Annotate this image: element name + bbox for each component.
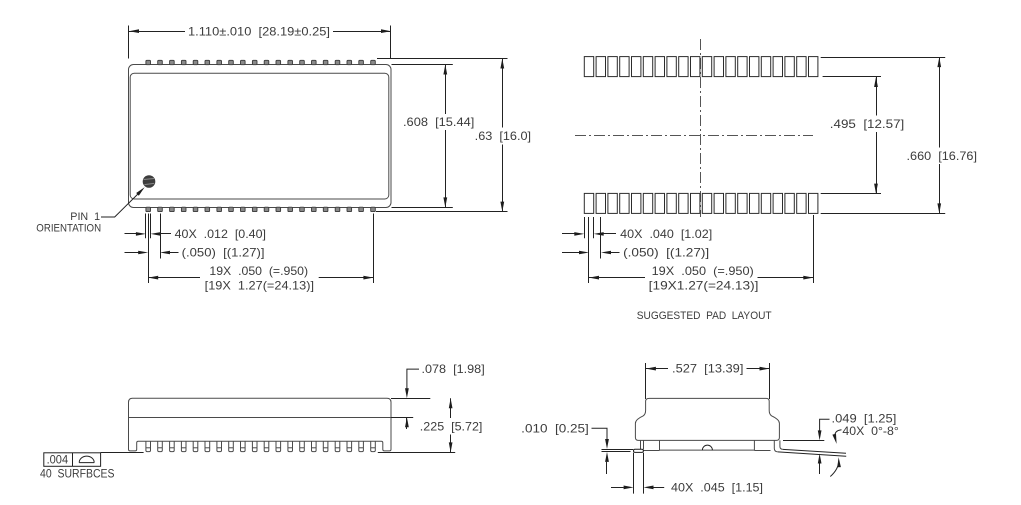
top view: pitch span dimension 19X .050 (=.950): [148, 264, 373, 293]
svg-text:40X .040 [1.02]: 40X .040 [1.02]: [620, 227, 712, 241]
side view: extension lines for .078: [391, 399, 430, 418]
pad layout: bottom pad row (20 pads): [584, 193, 818, 213]
svg-text:40X 0°-8°: 40X 0°-8°: [842, 424, 899, 438]
pad layout: horizontal centerline: [575, 135, 813, 137]
pad layout: top pad row (20 pads): [584, 57, 818, 77]
end view: extension line for .049: [783, 440, 824, 442]
side view: surface profile symbol: [79, 456, 94, 462]
end view: lead angle dimension 40X 0-8 deg: [830, 424, 899, 476]
svg-text:40X .045 [1.15]: 40X .045 [1.15]: [671, 481, 763, 495]
pad layout: pad width dimension 40X .040 [1.02]: [562, 227, 712, 241]
top view: pin pitch dimension (.050) [(1.27)]: [125, 246, 265, 260]
top view: pin row, bottom edge (20 pins): [146, 207, 375, 211]
svg-text:40X .012 [0.40]: 40X .012 [0.40]: [175, 227, 266, 241]
top view: label ORIENTATION: [36, 222, 101, 234]
side view: dimension .078 [1.98]: [405, 362, 485, 429]
top view: dimension .608 [15.44]: [403, 65, 474, 208]
svg-text:(.050) [(1.27)]: (.050) [(1.27)]: [182, 246, 265, 260]
svg-text:.63 [16.0]: .63 [16.0]: [475, 129, 531, 143]
svg-text:.660 [16.76]: .660 [16.76]: [907, 149, 978, 163]
pad layout: dimension .660 [16.76]: [907, 57, 978, 213]
svg-text:.495 [12.57]: .495 [12.57]: [830, 117, 905, 131]
end view: left gull-wing lead: [634, 440, 644, 452]
end view: foot width dimension 40X .045 [1.15]: [611, 481, 763, 495]
top view: package body inner (top-surface) outline: [130, 73, 389, 199]
svg-text:PIN 1: PIN 1: [70, 211, 100, 223]
side view: lead row (20 gull-wing leads): [146, 441, 375, 451]
svg-text:ORIENTATION: ORIENTATION: [36, 222, 101, 234]
top view: overall height dimension .63 extension lines: [376, 59, 508, 212]
side view: seating plane datum line: [101, 452, 456, 454]
top view: dimension .63 [16.0]: [475, 59, 531, 212]
top view: extension lines for pin width/pitch dims: [146, 214, 161, 284]
end view: standoff extension lines: [602, 450, 634, 452]
side view: flatness feature control frame .004: [44, 453, 101, 467]
svg-text:[19X1.27(=24.13)]: [19X1.27(=24.13)]: [649, 279, 759, 293]
svg-text:40 SURFBCES: 40 SURFBCES: [40, 468, 115, 480]
svg-text:.527 [13.39]: .527 [13.39]: [672, 362, 743, 376]
pad layout: extension lines for .495 and .660: [821, 58, 946, 214]
end view: bottom plate: [643, 440, 770, 450]
pad layout: pad pitch dimension (.050) [(1.27)]: [562, 246, 709, 260]
svg-text:[19X 1.27(=24.13)]: [19X 1.27(=24.13)]: [205, 279, 314, 293]
end view: index bump on bottom plate: [702, 445, 712, 450]
side view: dimension .225 [5.72]: [420, 398, 483, 452]
side view: note 40 SURFBCES: [40, 468, 115, 480]
top view: right extension line for 19X pitch dim: [373, 214, 375, 284]
pad layout: caption SUGGESTED PAD LAYOUT: [637, 310, 772, 322]
pad layout: extension lines for pad width/pitch dims: [585, 217, 601, 283]
svg-text:.010 [0.25]: .010 [0.25]: [521, 421, 589, 435]
svg-text:19X .050 (=.950): 19X .050 (=.950): [209, 264, 308, 278]
pad layout: dimension .495 [12.57]: [830, 77, 905, 194]
end view: dimension .527 [13.39]: [646, 362, 770, 376]
side view: mold parting line: [129, 417, 392, 419]
svg-text:.225 [5.72]: .225 [5.72]: [420, 419, 483, 433]
top view: overall width dimension 1.110±.010: [129, 24, 392, 58]
svg-text:19X .050 (=.950): 19X .050 (=.950): [652, 264, 754, 278]
end view: package body outline: [635, 398, 779, 440]
svg-text:(.050) [(1.27)]: (.050) [(1.27)]: [623, 246, 709, 260]
top view: pin-1 leader line and arrow: [101, 187, 145, 217]
top view: pin row, top edge (20 pins): [146, 60, 375, 64]
end view: extension lines for 40X .045: [634, 453, 644, 494]
pad layout: right extension line for 19X pitch dim: [813, 215, 815, 283]
pad layout: vertical centerline: [700, 39, 702, 217]
end view: extension lines for .527: [646, 363, 770, 399]
top view: pin 1 index dot: [143, 175, 156, 188]
end view: right gull-wing lead: [774, 440, 783, 452]
top view: pin width dimension 40X .012 [0.40]: [125, 227, 267, 241]
top view: body height dimension .608 extension lines: [392, 65, 453, 208]
end view: dimension .010 [0.25] standoff: [521, 421, 609, 474]
svg-text:1.110±.010 [28.19±0.25]: 1.110±.010 [28.19±0.25]: [188, 24, 330, 38]
svg-text:SUGGESTED PAD LAYOUT: SUGGESTED PAD LAYOUT: [637, 310, 772, 322]
svg-text:.608 [15.44]: .608 [15.44]: [403, 115, 474, 129]
svg-text:.078 [1.98]: .078 [1.98]: [422, 362, 485, 376]
top view: package body outer outline: [129, 65, 392, 208]
side view: package body outline with end feet: [129, 398, 392, 451]
end view: dimension .049 [1.25]: [818, 412, 897, 474]
top view: label PIN 1: [70, 211, 100, 223]
end view: lead foot angle reference lines 0-8 deg: [778, 449, 846, 456]
svg-text:.004: .004: [47, 455, 69, 467]
pad layout: pitch span dimension 19X .050 (=.950): [589, 264, 813, 293]
